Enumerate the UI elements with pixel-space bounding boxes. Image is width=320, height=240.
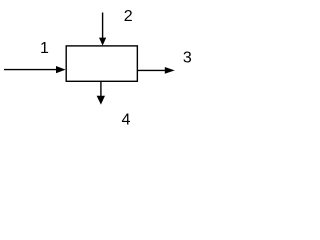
stream 3 arrowhead xyxy=(165,67,175,74)
svg-text:2: 2 xyxy=(124,8,133,25)
wire stream 1 line xyxy=(4,69,57,71)
stream 4 arrowhead xyxy=(97,96,105,105)
svg-text:1: 1 xyxy=(40,40,49,57)
svg-text:3: 3 xyxy=(183,50,192,67)
svg-text:4: 4 xyxy=(122,111,131,128)
wire stream 3 line xyxy=(138,69,166,71)
process box xyxy=(66,46,137,81)
wire stream 2 line xyxy=(102,13,104,39)
stream 1 arrowhead xyxy=(56,66,66,73)
stream 2 arrowhead xyxy=(99,38,106,46)
wire stream 4 line xyxy=(100,82,102,97)
